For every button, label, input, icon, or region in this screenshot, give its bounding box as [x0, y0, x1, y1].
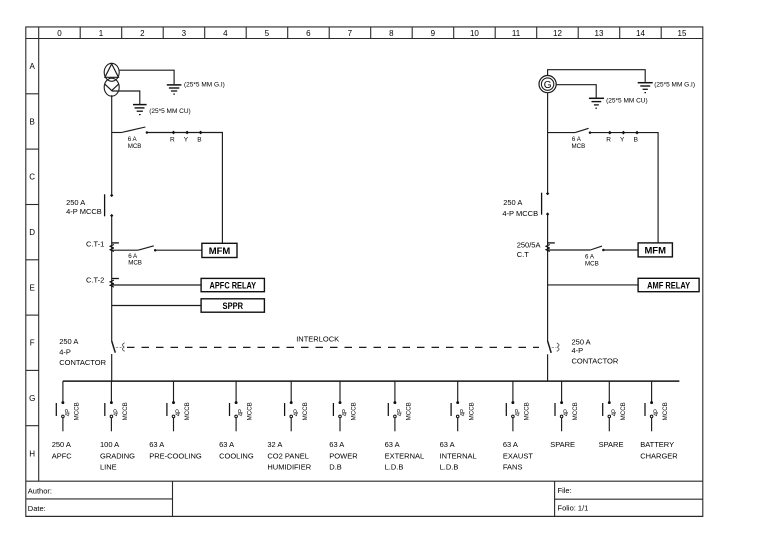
svg-text:63 A: 63 A [329, 440, 344, 449]
feeder MCCB 250A APFC [56, 381, 80, 431]
meter MFM left [202, 243, 237, 257]
svg-text:Y: Y [620, 136, 625, 143]
svg-text:H: H [29, 449, 35, 458]
svg-text:MCCB: MCCB [351, 402, 358, 420]
svg-text:250/5A: 250/5A [517, 241, 541, 250]
svg-text:MCCB: MCCB [524, 402, 531, 420]
svg-text:INTERNAL: INTERNAL [440, 451, 477, 460]
svg-text:GRADING: GRADING [100, 451, 135, 460]
svg-text:250 A: 250 A [503, 198, 522, 207]
svg-text:CONTACTOR: CONTACTOR [59, 358, 106, 367]
svg-text:6 A: 6 A [572, 136, 582, 143]
svg-text:L.D.B: L.D.B [440, 463, 459, 472]
feeder MCCB SPARE 1 [555, 381, 579, 431]
svg-text:MCCB: MCCB [406, 402, 413, 420]
wire transformer neutral to ground [112, 91, 140, 104]
meter MFM right [638, 243, 672, 257]
svg-text:MCCB: MCCB [468, 402, 475, 420]
svg-text:13: 13 [595, 29, 604, 38]
label 63A INTERNAL L.D.B [440, 440, 477, 472]
svg-text:SPPR: SPPR [223, 301, 244, 312]
feeder MCCB 32A CO2 PANEL HUMIDIFIER [285, 381, 309, 431]
svg-text:8: 8 [389, 29, 394, 38]
svg-text:4-P: 4-P [59, 347, 71, 356]
6A MCB metering branch right [548, 246, 605, 267]
svg-text:MCCB: MCCB [662, 402, 669, 420]
svg-text:250 A: 250 A [66, 198, 85, 207]
svg-text:250 A: 250 A [52, 440, 71, 449]
svg-text:C: C [29, 173, 35, 182]
ground (25*5 MM CU) left [133, 105, 147, 115]
svg-text:FANS: FANS [503, 463, 523, 472]
wire to MFM right [603, 249, 638, 251]
svg-text:63 A: 63 A [503, 440, 518, 449]
label BATTERY CHARGER [640, 440, 678, 460]
svg-text:APFC: APFC [52, 451, 73, 460]
column numbers 0-15 [57, 29, 687, 38]
svg-text:E: E [30, 283, 35, 292]
svg-text:MFM: MFM [644, 245, 666, 256]
current transformer C.T-1 [86, 240, 119, 252]
SPPR box [201, 299, 264, 312]
interlock dashed link [127, 335, 539, 348]
svg-text:4P: 4P [460, 409, 466, 416]
svg-text:C.T-2: C.T-2 [86, 275, 104, 284]
wire metering branch left [147, 133, 223, 244]
row letters A-H [29, 62, 35, 458]
svg-text:MCCB: MCCB [247, 402, 254, 420]
svg-text:4P: 4P [654, 409, 660, 416]
svg-text:BATTERY: BATTERY [640, 440, 674, 449]
wire transformer HV to ground [119, 70, 174, 84]
svg-text:Y: Y [184, 136, 189, 143]
APFC RELAY box [201, 278, 264, 291]
svg-text:File:: File: [558, 486, 572, 495]
MCCB 250A 4-P left [66, 194, 113, 218]
svg-text:F: F [30, 339, 35, 348]
svg-text:SPARE: SPARE [550, 440, 575, 449]
generator G [539, 76, 556, 93]
svg-text:9: 9 [431, 29, 436, 38]
svg-text:C.T: C.T [517, 250, 530, 259]
6A MCB row B right [548, 128, 592, 150]
feeder MCCB BATTERY CHARGER [645, 381, 669, 431]
svg-text:4P: 4P [176, 409, 182, 416]
feeder MCCB 63A EXTERNAL L.D.B [388, 381, 412, 431]
svg-text:1: 1 [99, 29, 104, 38]
svg-text:100 A: 100 A [100, 440, 119, 449]
svg-text:MCCB: MCCB [74, 402, 81, 420]
svg-text:6: 6 [306, 29, 311, 38]
svg-text:4P: 4P [66, 409, 72, 416]
label 63A COOLING [219, 440, 254, 460]
label 63A EXAUST FANS [503, 440, 533, 472]
svg-text:LINE: LINE [100, 463, 117, 472]
svg-text:MCB: MCB [128, 260, 142, 267]
wire to AMF relay [548, 284, 639, 286]
MCCB 250A 4-P right [502, 192, 549, 218]
svg-text:HUMIDIFIER: HUMIDIFIER [267, 463, 311, 472]
feeder MCCB 63A EXAUST FANS [506, 381, 530, 431]
label 100A GRADING LINE [100, 440, 135, 472]
svg-text:INTERLOCK: INTERLOCK [296, 335, 339, 344]
svg-text:(25*5 MM G.I): (25*5 MM G.I) [184, 81, 225, 88]
ground (25*5 MM G.I) left [167, 85, 182, 94]
svg-text:15: 15 [678, 29, 687, 38]
label 63A POWER D.B [329, 440, 358, 472]
svg-text:4P: 4P [239, 409, 245, 416]
svg-text:L.D.B: L.D.B [385, 463, 404, 472]
svg-text:250 A: 250 A [59, 337, 78, 346]
svg-text:MCCB: MCCB [184, 402, 191, 420]
indicator lamps R Y B left [170, 131, 203, 144]
svg-text:MCCB: MCCB [122, 402, 129, 420]
current transformer C.T-2 [86, 275, 119, 287]
svg-text:MCCB: MCCB [302, 402, 309, 420]
svg-text:SPARE: SPARE [599, 440, 624, 449]
contactor 250A 4-P left [59, 337, 125, 367]
6A MCB metering branch left [112, 246, 157, 267]
svg-text:10: 10 [470, 29, 479, 38]
svg-text:7: 7 [348, 29, 353, 38]
svg-text:A: A [30, 62, 36, 71]
label 63A PRE-COOLING [149, 440, 202, 460]
svg-text:4P: 4P [516, 409, 522, 416]
label 32A CO2 PANEL HUMIDIFIER [267, 440, 311, 472]
label SPARE 1 [550, 440, 575, 449]
svg-text:MCCB: MCCB [572, 402, 579, 420]
svg-text:63 A: 63 A [219, 440, 234, 449]
svg-text:MCB: MCB [572, 143, 586, 150]
feeder MCCB 63A POWER D.B [333, 381, 357, 431]
svg-text:3: 3 [182, 29, 187, 38]
wire metering branch right [590, 133, 658, 243]
label 63A EXTERNAL L.D.B [385, 440, 425, 472]
svg-text:EXTERNAL: EXTERNAL [385, 451, 425, 460]
svg-text:4-P MCCB: 4-P MCCB [502, 209, 538, 218]
svg-text:R: R [606, 136, 611, 143]
svg-text:(25*5 MM CU): (25*5 MM CU) [149, 108, 191, 115]
svg-text:CO2 PANEL: CO2 PANEL [267, 451, 309, 460]
svg-text:0: 0 [57, 29, 62, 38]
svg-text:MCB: MCB [585, 260, 599, 267]
svg-text:Author:: Author: [28, 487, 52, 496]
main LT bus bar [63, 380, 680, 382]
ground (25*5 MM CU) right [589, 98, 604, 108]
svg-text:5: 5 [265, 29, 270, 38]
svg-text:12: 12 [553, 29, 562, 38]
svg-text:(25*5 MM CU): (25*5 MM CU) [606, 98, 648, 105]
feeder MCCB SPARE 2 [603, 381, 627, 431]
feeder MCCB 63A COOLING [230, 381, 254, 431]
svg-text:14: 14 [636, 29, 645, 38]
svg-text:Date:: Date: [28, 504, 46, 513]
svg-text:4P: 4P [343, 409, 349, 416]
wire generator to ground CU [556, 85, 596, 98]
svg-text:63 A: 63 A [385, 440, 400, 449]
svg-text:4: 4 [223, 29, 228, 38]
svg-text:(25*5 MM G.I): (25*5 MM G.I) [654, 81, 695, 88]
svg-text:6 A: 6 A [585, 253, 595, 260]
svg-text:D.B: D.B [329, 463, 342, 472]
svg-text:B: B [634, 136, 638, 143]
svg-text:Folio: 1/1: Folio: 1/1 [558, 504, 589, 513]
svg-text:4P: 4P [612, 409, 618, 416]
wire to MFM left [155, 249, 202, 251]
wire right main bus [547, 93, 549, 381]
feeder MCCB 63A PRE-COOLING [167, 381, 191, 431]
ground (25*5 MM G.I) right [638, 83, 653, 93]
svg-text:B: B [197, 136, 201, 143]
svg-text:4P: 4P [564, 409, 570, 416]
svg-text:MCCB: MCCB [620, 402, 627, 420]
svg-text:PRE-COOLING: PRE-COOLING [149, 451, 202, 460]
AMF RELAY box [638, 278, 699, 291]
svg-text:4-P MCCB: 4-P MCCB [66, 207, 102, 216]
svg-text:63 A: 63 A [149, 440, 164, 449]
6A MCB row B left [112, 127, 148, 150]
label 250A APFC [52, 440, 73, 460]
svg-text:MFM: MFM [209, 246, 231, 257]
svg-text:11: 11 [512, 29, 521, 38]
transformer T1 (delta-wye) [104, 63, 119, 96]
svg-text:G: G [29, 394, 35, 403]
wire to APFC relay [112, 284, 201, 286]
svg-text:4P: 4P [114, 409, 120, 416]
svg-text:B: B [30, 117, 35, 126]
svg-text:POWER: POWER [329, 451, 358, 460]
svg-text:2: 2 [140, 29, 145, 38]
wire to SPPR [112, 305, 201, 307]
feeder MCCB 100A GRADING LINE [105, 381, 129, 431]
title block [26, 481, 703, 516]
wire left main bus [111, 95, 113, 381]
label SPARE 2 [599, 440, 624, 449]
svg-text:4P: 4P [294, 409, 300, 416]
svg-text:4-P: 4-P [572, 346, 584, 355]
svg-text:4P: 4P [398, 409, 404, 416]
svg-text:R: R [170, 136, 175, 143]
svg-text:CHARGER: CHARGER [640, 451, 678, 460]
border frame [26, 27, 703, 517]
svg-text:AMF RELAY: AMF RELAY [647, 280, 691, 291]
svg-text:D: D [29, 228, 35, 237]
feeder MCCB 63A INTERNAL L.D.B [451, 381, 475, 431]
indicator lamps R Y B right [606, 131, 639, 144]
svg-text:APFC RELAY: APFC RELAY [210, 280, 257, 291]
contactor 250A 4-P right [548, 338, 619, 366]
svg-text:32 A: 32 A [267, 440, 282, 449]
svg-text:G: G [544, 80, 552, 91]
svg-text:CONTACTOR: CONTACTOR [572, 357, 619, 366]
svg-text:MCB: MCB [128, 143, 142, 150]
svg-text:C.T-1: C.T-1 [86, 240, 104, 249]
svg-text:EXAUST: EXAUST [503, 451, 533, 460]
svg-text:63 A: 63 A [440, 440, 455, 449]
wire generator to ground G.I [548, 70, 646, 82]
current transformer 250/5A C.T [517, 241, 555, 260]
svg-text:COOLING: COOLING [219, 451, 254, 460]
